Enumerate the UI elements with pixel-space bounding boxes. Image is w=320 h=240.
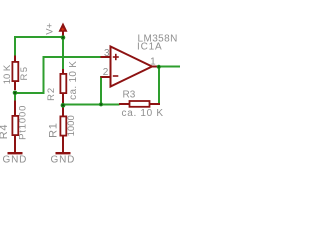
svg-text:V+: V+ <box>44 22 55 34</box>
svg-text:ca. 10 K: ca. 10 K <box>122 108 164 119</box>
svg-text:Pt1000: Pt1000 <box>17 105 28 140</box>
svg-text:ca. 10 K: ca. 10 K <box>68 61 79 100</box>
svg-text:10 K: 10 K <box>2 64 13 84</box>
svg-text:1: 1 <box>150 57 156 68</box>
svg-text:GND: GND <box>3 155 28 165</box>
svg-text:GND: GND <box>51 155 76 165</box>
svg-text:R3: R3 <box>123 89 136 100</box>
svg-text:3: 3 <box>104 48 110 59</box>
svg-text:R5: R5 <box>19 66 30 81</box>
svg-text:R1: R1 <box>48 123 60 138</box>
svg-text:R2: R2 <box>46 87 57 101</box>
svg-text:2: 2 <box>103 67 109 78</box>
svg-text:IC1A: IC1A <box>137 42 162 53</box>
svg-text:R4: R4 <box>0 124 10 139</box>
svg-text:1000: 1000 <box>66 115 77 136</box>
